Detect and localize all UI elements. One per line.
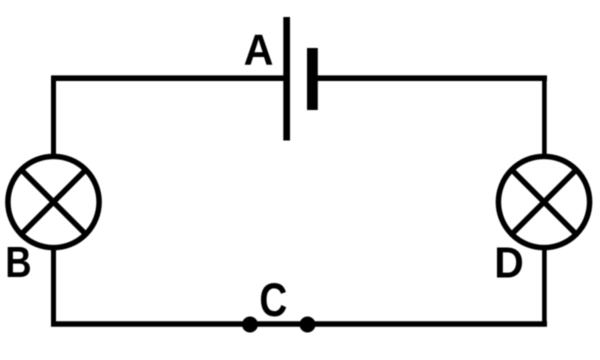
label D — [494, 238, 524, 286]
lamp B (circle with X) — [8, 156, 99, 247]
svg-text:B: B — [5, 238, 31, 287]
switch C: node dot left — [242, 317, 258, 333]
wire bottom (lamp B through switch C to lamp D) — [51, 247, 547, 327]
svg-text:D: D — [494, 238, 524, 286]
wire top-right (battery to lamp D) — [317, 76, 547, 158]
label B — [5, 238, 31, 287]
svg-text:C: C — [259, 274, 287, 327]
switch C: node dot right — [300, 317, 316, 333]
wire top-left (lamp B to battery) — [52, 76, 284, 158]
label A — [244, 26, 274, 74]
lamp D (circle with X) — [498, 156, 589, 247]
battery A: long positive plate — [283, 17, 290, 141]
svg-text:A: A — [244, 26, 274, 74]
battery A: short negative plate — [307, 48, 318, 110]
label C — [259, 274, 287, 327]
